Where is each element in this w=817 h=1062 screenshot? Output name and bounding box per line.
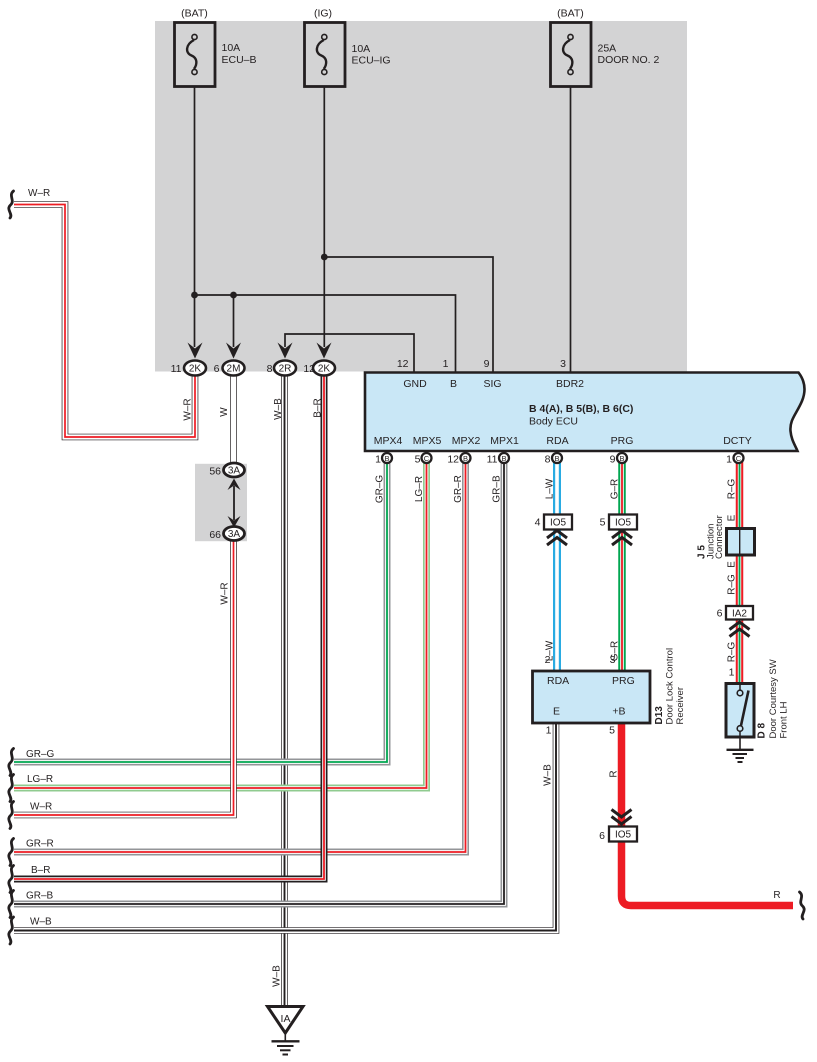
label Body ECU title <box>529 403 633 428</box>
label (BAT) fuse ECU-B <box>181 8 208 20</box>
terminal letter C MPX5 <box>424 454 430 463</box>
wire W-B from connector 2R pin 8 down to ground IA <box>281 372 288 1007</box>
ground symbol below IA <box>272 1033 300 1055</box>
wire label W vertical at 2M <box>219 407 230 417</box>
svg-text:B: B <box>450 378 457 390</box>
svg-text:W–R: W–R <box>183 398 194 420</box>
arrow down into 3A pin 66 <box>228 516 241 528</box>
pin number 12 GND <box>397 358 409 370</box>
label 2R oval <box>279 364 292 375</box>
svg-text:R–G: R–G <box>727 574 738 595</box>
label IA2 box <box>732 609 747 620</box>
wire from fuse DOOR NO.2 down to Body ECU pin 3 (BDR2) <box>570 75 572 372</box>
wire branch from ECU-B node to Body ECU pin 1 (B) <box>195 295 456 372</box>
svg-text:MPX5: MPX5 <box>413 435 442 447</box>
junction connector J5 box <box>727 529 755 556</box>
continuation squiggle wire B-R <box>9 866 14 893</box>
svg-text:Door Lock Control: Door Lock Control <box>665 648 676 725</box>
chevron junction above IO5 pin 6 on wire R <box>612 810 632 825</box>
wire W-R from left edge at top to connector 2K pin 11 <box>14 205 195 438</box>
svg-text:ECU–B: ECU–B <box>222 54 257 66</box>
svg-text:1: 1 <box>729 667 735 679</box>
background panel (engine compartment shading) <box>155 21 687 372</box>
continuation squiggle wire LG-R <box>9 775 14 802</box>
wire from fuse ECU-IG down to connector 2K pin 12 <box>323 75 325 347</box>
svg-text:RDA: RDA <box>547 675 569 687</box>
svg-text:3A: 3A <box>228 466 241 477</box>
connector IO5 pin 6 box <box>609 827 637 842</box>
wire GR-B from left edge to Body ECU pin MPX1 <box>14 461 504 904</box>
pin number 56 of 3A <box>209 466 221 478</box>
pin number 1 B <box>443 358 449 370</box>
svg-text:(IG): (IG) <box>314 8 332 20</box>
pin number 1 E D13 <box>546 725 552 737</box>
wire label W-B bottom near ground <box>272 965 283 987</box>
svg-text:1: 1 <box>443 358 449 370</box>
svg-text:R: R <box>773 890 780 901</box>
svg-text:B–R: B–R <box>313 398 324 417</box>
svg-text:C: C <box>424 454 430 463</box>
label MPX2 <box>452 435 481 447</box>
svg-text:B 4(A), B 5(B), B 6(C): B 4(A), B 5(B), B 6(C) <box>529 403 633 415</box>
pin number 11 MPX1 <box>487 454 498 466</box>
connector 2K pin 12 oval <box>313 361 335 376</box>
svg-text:E: E <box>727 561 738 568</box>
svg-text:GR–B: GR–B <box>492 475 503 503</box>
svg-text:B–R: B–R <box>31 865 50 876</box>
Body ECU pin MPX5 terminal circle C <box>422 453 432 463</box>
pin number 3 BDR2 <box>560 358 566 370</box>
svg-text:3: 3 <box>610 654 616 666</box>
svg-text:56: 56 <box>209 466 221 478</box>
svg-text:D13: D13 <box>654 706 665 725</box>
svg-text:1: 1 <box>375 454 381 466</box>
pin number 6 IA2 <box>717 608 723 620</box>
svg-text:B: B <box>554 454 559 463</box>
continuation squiggle wire GR-G <box>9 749 14 776</box>
svg-text:12: 12 <box>303 363 315 375</box>
svg-text:12: 12 <box>447 454 459 466</box>
svg-text:2R: 2R <box>279 364 292 375</box>
svg-text:2M: 2M <box>227 364 241 375</box>
svg-text:DCTY: DCTY <box>723 435 752 447</box>
svg-text:11: 11 <box>487 454 498 466</box>
svg-text:66: 66 <box>209 529 221 541</box>
svg-text:10A: 10A <box>352 43 371 55</box>
D8 Door Courtesy SW Front LH block <box>726 684 754 738</box>
svg-text:R–G: R–G <box>727 478 738 499</box>
wire LG-R from left edge to Body ECU pin MPX5 <box>14 461 427 788</box>
connector arrow into 2M pin 6 <box>226 343 241 359</box>
label MPX5 <box>413 435 442 447</box>
svg-text:W–B: W–B <box>273 398 284 420</box>
continuation squiggle wire W-R <box>9 802 14 829</box>
svg-text:B: B <box>384 454 389 463</box>
wire GR-R from left edge to Body ECU pin MPX2 <box>14 461 466 852</box>
svg-text:W: W <box>219 407 230 417</box>
svg-text:RDA: RDA <box>546 435 568 447</box>
wire W-B from left edge up to D13 terminal E pin 1 <box>14 723 556 931</box>
label IO5 box 6 <box>615 830 632 841</box>
svg-text:Body ECU: Body ECU <box>529 416 578 428</box>
svg-text:W–R: W–R <box>30 802 52 813</box>
wire R-G from Body ECU pin DCTY down to D8 door courtesy switch <box>736 461 744 684</box>
wire from fuse ECU-B down to connector 2K pin 11 <box>194 74 196 347</box>
label fuse 10A ECU-B <box>222 42 257 66</box>
label 3A oval top <box>228 466 241 477</box>
connector arrow into 2K pin 11 <box>188 343 203 359</box>
pin number 3 PRG D13 <box>610 654 616 666</box>
svg-text:IO5: IO5 <box>615 518 632 529</box>
svg-text:MPX4: MPX4 <box>374 435 403 447</box>
svg-text:1: 1 <box>726 454 732 466</box>
svg-text:W–R: W–R <box>28 188 50 199</box>
label (IG) fuse ECU-IG <box>314 8 332 20</box>
wire label G-R lower <box>610 641 621 662</box>
wire label R at IO5 pin 6 <box>599 830 605 842</box>
label D8 Door Courtesy SW Front LH <box>757 659 790 738</box>
label PRG <box>611 435 634 447</box>
svg-text:W–R: W–R <box>220 582 231 604</box>
svg-text:2: 2 <box>545 654 551 666</box>
wire label R near right edge <box>773 890 780 901</box>
svg-text:IO5: IO5 <box>615 830 632 841</box>
svg-text:2K: 2K <box>318 364 331 375</box>
svg-text:B: B <box>501 454 506 463</box>
wire label R-G upper <box>727 478 738 499</box>
continuation squiggle wire GR-B <box>9 891 14 918</box>
label 3A oval bottom <box>228 529 241 540</box>
svg-text:Receiver: Receiver <box>675 687 686 725</box>
chevron junction below IA2 <box>730 622 750 637</box>
svg-text:(BAT): (BAT) <box>181 8 208 20</box>
wire label W-B at D13 pin E <box>543 764 554 786</box>
Body ECU pin PRG terminal circle B <box>617 453 627 463</box>
label D13 Door Lock Control Receiver <box>654 648 686 725</box>
pin number 5 IO5 <box>600 517 606 529</box>
wire label GR-B left <box>26 891 54 902</box>
label MPX1 <box>490 435 519 447</box>
wire W from connector 2M pin 6 down to junction 3A pin 56 <box>230 372 237 465</box>
label B <box>450 378 457 390</box>
label BDR2 <box>556 378 584 390</box>
wire label B-R left <box>31 865 50 876</box>
wire W-R from left edge up to junction 3A pin 66 <box>14 537 234 815</box>
label 2K oval second <box>318 364 331 375</box>
svg-text:25A: 25A <box>598 43 617 55</box>
svg-text:1: 1 <box>546 725 552 737</box>
wire label W-R vertical at 2K11 <box>183 398 194 420</box>
pin number 1 MPX4 <box>375 454 381 466</box>
svg-text:GND: GND <box>403 378 427 390</box>
wire label W-R left <box>30 802 52 813</box>
svg-text:PRG: PRG <box>612 675 635 687</box>
Body ECU block B4(A) B5(B) B6(C) with torn right edge <box>365 373 805 452</box>
fuse 25A DOOR NO. 2 <box>551 23 592 87</box>
connector 2M pin 6 oval <box>223 361 245 376</box>
pin number 6 of connector 2M <box>214 363 220 375</box>
D13 Door Lock Control Receiver block <box>533 671 651 723</box>
pin number 4 IO5 <box>535 517 541 529</box>
wire label G-R upper <box>610 479 621 500</box>
svg-text:8: 8 <box>267 363 273 375</box>
wire label L-W upper <box>545 478 556 499</box>
svg-text:MPX1: MPX1 <box>490 435 519 447</box>
label fuse 25A DOOR NO. 2 <box>598 43 660 67</box>
label GND <box>403 378 427 390</box>
svg-text:E: E <box>553 706 560 718</box>
pin number 2 RDA D13 <box>545 654 551 666</box>
label IA in ground triangle <box>281 1013 291 1025</box>
wire from Body ECU pin 12 (GND) to connector 2R pin 8 <box>285 334 414 372</box>
terminal letter E above J5 <box>727 514 738 521</box>
svg-text:IO5: IO5 <box>550 518 567 529</box>
pin number 5 +B D13 <box>609 725 615 737</box>
svg-text:GR–B: GR–B <box>26 891 54 902</box>
svg-text:(BAT): (BAT) <box>557 8 584 20</box>
svg-text:GR–G: GR–G <box>375 475 386 504</box>
wire branch down to connector 2M pin 6 <box>233 295 235 347</box>
Body ECU pin MPX4 terminal circle B <box>382 453 392 463</box>
svg-text:PRG: PRG <box>611 435 634 447</box>
Body ECU pin MPX1 terminal circle B <box>499 453 509 463</box>
pin number 9 SIG <box>484 358 490 370</box>
svg-text:IA2: IA2 <box>732 609 747 620</box>
wire label GR-G vertical <box>375 475 386 504</box>
label RDA <box>546 435 568 447</box>
svg-text:9: 9 <box>610 454 616 466</box>
continuation squiggle wire R right edge <box>800 892 805 919</box>
svg-text:ECU–IG: ECU–IG <box>352 55 391 67</box>
pin number 9 PRG <box>610 454 616 466</box>
svg-text:Connector: Connector <box>714 515 725 559</box>
terminal letter B PRG <box>619 454 624 463</box>
label IO5 box 5 <box>615 518 632 529</box>
switch contacts inside D8 <box>737 685 748 737</box>
svg-text:GR–R: GR–R <box>26 839 54 850</box>
svg-text:B: B <box>619 454 624 463</box>
wire label R at +B wire <box>609 770 620 777</box>
terminal letter B MPX1 <box>501 454 506 463</box>
svg-text:5: 5 <box>609 725 615 737</box>
chevron junction below IO5 pin 5 <box>612 531 632 546</box>
svg-text:4: 4 <box>535 517 541 529</box>
label 2M oval <box>227 364 241 375</box>
terminal letter B MPX2 <box>463 454 468 463</box>
svg-text:IA: IA <box>281 1013 291 1025</box>
svg-text:8: 8 <box>545 454 551 466</box>
pin number 12 of connector 2K <box>303 363 315 375</box>
wire label W-B vertical at 2R <box>273 398 284 420</box>
wire B-R from left edge up to connector 2K pin 12 <box>14 372 324 879</box>
wire label W-R below 3A <box>220 582 231 604</box>
label +B in D13 <box>612 706 625 718</box>
label DCTY <box>723 435 752 447</box>
pin number 8 RDA <box>545 454 551 466</box>
svg-text:SIG: SIG <box>483 378 501 390</box>
svg-text:C: C <box>736 454 742 463</box>
label (BAT) fuse DOOR NO.2 <box>557 8 584 20</box>
wire label R-G lower <box>727 641 738 662</box>
svg-text:G–R: G–R <box>610 479 621 500</box>
svg-text:2K: 2K <box>189 364 202 375</box>
svg-text:DOOR NO. 2: DOOR NO. 2 <box>598 54 660 66</box>
continuation squiggle wire GR-R <box>9 839 14 866</box>
wire L-W from Body ECU pin RDA down to D13 pin RDA 2 <box>553 461 561 671</box>
wire label W-B left <box>30 917 52 928</box>
connector arrow into 2R pin 8 <box>278 343 293 359</box>
pin number 1 D8 <box>729 667 735 679</box>
pin number 11 of connector 2K <box>171 363 182 375</box>
ground symbol below D8 <box>727 737 754 762</box>
svg-text:E: E <box>727 514 738 521</box>
terminal letter C DCTY <box>736 454 742 463</box>
svg-text:LG–R: LG–R <box>27 774 53 785</box>
label J5 Junction Connector <box>697 515 726 559</box>
shaded panel behind 3A junction <box>195 464 247 541</box>
wire label LG-R vertical <box>414 476 425 502</box>
wire GR-G from left edge to Body ECU pin MPX4 <box>14 461 387 762</box>
ground IA triangle at bottom <box>268 1007 304 1034</box>
connector 2K pin 11 oval <box>184 361 206 376</box>
pin number 1 DCTY <box>726 454 732 466</box>
pin number 5 MPX5 <box>415 454 421 466</box>
label IO5 box 4 <box>550 518 567 529</box>
wire label GR-R left <box>26 839 54 850</box>
pin number 8 of connector 2R <box>267 363 273 375</box>
wire label L-W lower <box>545 640 556 661</box>
svg-text:Door Courtesy SW: Door Courtesy SW <box>768 659 779 738</box>
pin number 12 MPX2 <box>447 454 459 466</box>
node junction dot on ECU-IG feed <box>321 254 328 261</box>
wire R thick from D13 pin +B 5 down through IO5 to right edge <box>622 723 794 906</box>
wire label GR-R vertical <box>453 475 464 503</box>
fuse 10A ECU-B <box>175 23 216 87</box>
terminal letter B MPX4 <box>384 454 389 463</box>
wire G-R from Body ECU pin PRG down to D13 pin PRG 3 <box>618 461 626 671</box>
continuation squiggle wire W-R top left <box>9 191 14 218</box>
svg-text:5: 5 <box>600 517 606 529</box>
connector 2R pin 8 oval <box>274 361 296 376</box>
pin number 66 of 3A <box>209 529 221 541</box>
node junction dot on ECU-B feed <box>191 292 198 299</box>
label fuse 10A ECU-IG <box>352 43 391 67</box>
svg-text:R–G: R–G <box>727 641 738 662</box>
svg-text:6: 6 <box>214 363 220 375</box>
Body ECU pin DCTY terminal circle C <box>734 453 744 463</box>
node junction dot branch to 2M <box>230 292 237 299</box>
wire label W-R top left horizontal <box>28 188 50 199</box>
svg-text:L–W: L–W <box>545 478 556 499</box>
svg-text:B: B <box>463 454 468 463</box>
svg-text:GR–G: GR–G <box>26 749 55 760</box>
junction connector 3A pin 66 oval <box>224 527 245 541</box>
svg-text:MPX2: MPX2 <box>452 435 481 447</box>
label E in D13 <box>553 706 560 718</box>
label SIG <box>483 378 501 390</box>
svg-text:6: 6 <box>599 830 605 842</box>
svg-text:GR–R: GR–R <box>453 475 464 503</box>
wire label B-R vertical at 2K12 <box>313 398 324 417</box>
svg-text:12: 12 <box>397 358 409 370</box>
connector IO5 pin 5 box <box>609 515 637 530</box>
svg-text:D 8: D 8 <box>757 723 768 739</box>
continuation squiggle wire W-B <box>9 917 14 944</box>
svg-text:W–B: W–B <box>272 965 283 987</box>
arrow up into 3A pin 56 <box>228 479 241 491</box>
chevron junction below IO5 pin 4 <box>547 531 567 546</box>
svg-text:LG–R: LG–R <box>414 476 425 502</box>
svg-text:R: R <box>609 770 620 777</box>
svg-text:W–B: W–B <box>30 917 52 928</box>
wire label LG-R left <box>27 774 53 785</box>
svg-text:Front LH: Front LH <box>779 701 790 738</box>
svg-text:9: 9 <box>484 358 490 370</box>
Body ECU pin MPX2 terminal circle B <box>461 453 471 463</box>
connector arrow into 2K pin 12 <box>317 343 332 359</box>
label RDA in D13 <box>547 675 569 687</box>
svg-text:10A: 10A <box>222 42 241 54</box>
fuse 10A ECU-IG <box>305 23 346 87</box>
svg-text:3: 3 <box>560 358 566 370</box>
junction connector 3A pin 56 oval <box>224 463 245 477</box>
svg-text:BDR2: BDR2 <box>556 378 584 390</box>
svg-text:3A: 3A <box>228 529 241 540</box>
wire label GR-G left <box>26 749 55 760</box>
svg-text:11: 11 <box>171 363 182 375</box>
terminal letter B RDA <box>554 454 559 463</box>
svg-text:W–B: W–B <box>543 764 554 786</box>
wire label GR-B vertical <box>492 475 503 503</box>
svg-text:5: 5 <box>415 454 421 466</box>
link wire between 3A pins <box>233 486 235 520</box>
connector IA2 pin 6 box <box>726 606 753 620</box>
wire label R-G mid <box>727 574 738 595</box>
svg-text:6: 6 <box>717 608 723 620</box>
label PRG in D13 <box>612 675 635 687</box>
label MPX4 <box>374 435 403 447</box>
label 2K oval <box>189 364 202 375</box>
svg-text:+B: +B <box>612 706 625 718</box>
terminal letter E below J5 <box>727 561 738 568</box>
wire branch from ECU-IG node to Body ECU pin 9 (SIG) <box>324 257 493 372</box>
connector IO5 pin 4 box <box>544 515 572 530</box>
Body ECU pin RDA terminal circle B <box>552 453 562 463</box>
